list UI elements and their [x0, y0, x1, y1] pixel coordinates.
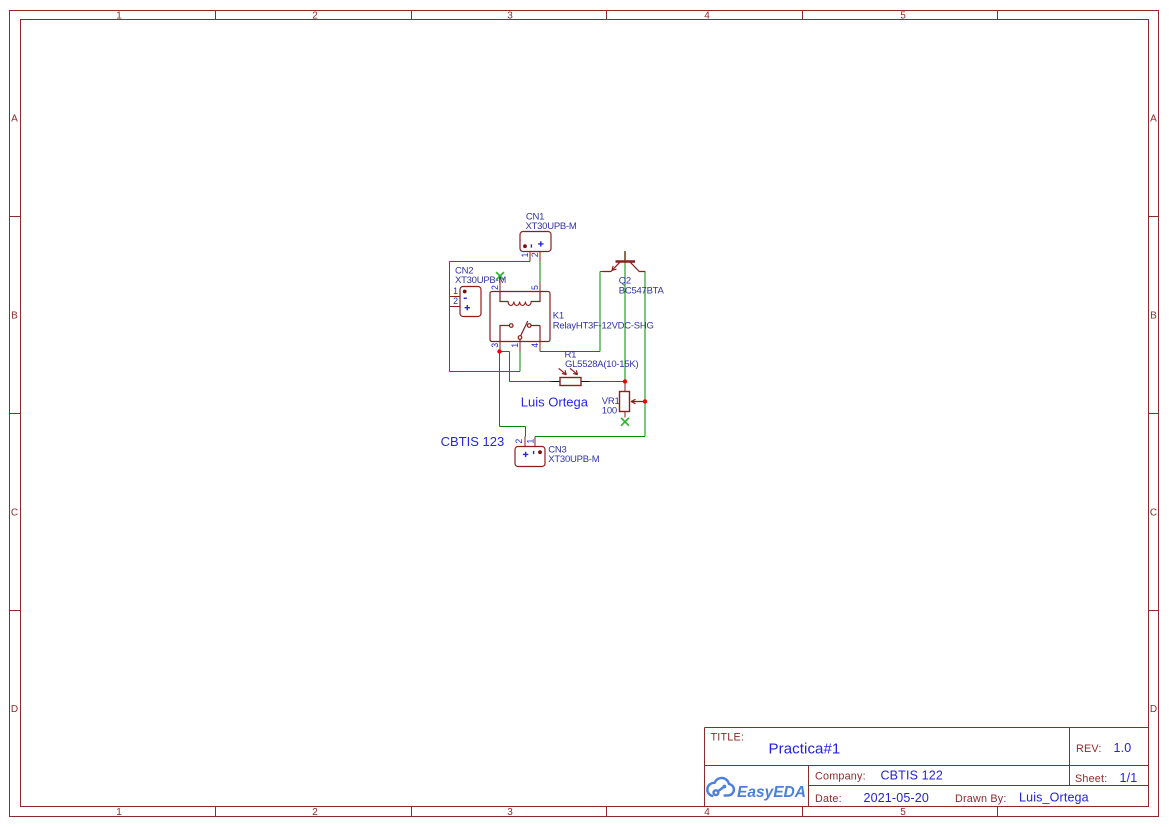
svg-text:Company:: Company:: [815, 771, 866, 783]
svg-text:1: 1: [510, 343, 520, 348]
svg-text:5: 5: [900, 10, 906, 21]
svg-text:Date:: Date:: [815, 793, 842, 805]
svg-text:XT30UPB-M: XT30UPB-M: [526, 221, 577, 232]
svg-text:100: 100: [602, 406, 617, 417]
svg-text:XT30UPB-M: XT30UPB-M: [548, 454, 599, 465]
svg-text:REV:: REV:: [1076, 743, 1102, 755]
svg-text:B: B: [1150, 311, 1157, 322]
svg-text:Drawn By:: Drawn By:: [955, 793, 1007, 805]
svg-text:1.0: 1.0: [1114, 741, 1132, 755]
svg-text:2: 2: [312, 807, 318, 818]
svg-text:4: 4: [704, 10, 710, 21]
svg-text:1/1: 1/1: [1120, 771, 1138, 785]
svg-text:TITLE:: TITLE:: [711, 732, 745, 744]
svg-text:2021-05-20: 2021-05-20: [864, 791, 929, 805]
svg-text:BC547BTA: BC547BTA: [619, 285, 665, 296]
svg-text:4: 4: [530, 343, 540, 348]
svg-text:2: 2: [312, 10, 318, 21]
svg-text:2: 2: [530, 252, 540, 257]
svg-text:C: C: [1150, 508, 1157, 519]
svg-text:GL5528A(10-15K): GL5528A(10-15K): [565, 359, 638, 370]
svg-text:D: D: [11, 704, 18, 715]
svg-text:RelayHT3F-12VDC-SHG: RelayHT3F-12VDC-SHG: [553, 321, 654, 332]
svg-text:1: 1: [520, 252, 530, 257]
svg-text:5: 5: [900, 807, 906, 818]
svg-text:EasyEDA: EasyEDA: [737, 784, 806, 801]
svg-text:CBTIS 123: CBTIS 123: [441, 434, 505, 449]
svg-text:A: A: [1150, 114, 1157, 125]
svg-text:A: A: [11, 114, 18, 125]
svg-text:2: 2: [490, 285, 500, 290]
svg-text:3: 3: [507, 807, 513, 818]
svg-text:Luis_Ortega: Luis_Ortega: [1019, 791, 1089, 805]
svg-text:Sheet:: Sheet:: [1075, 773, 1107, 785]
svg-text:C: C: [11, 508, 18, 519]
svg-text:4: 4: [704, 807, 710, 818]
svg-text:1: 1: [116, 10, 122, 21]
svg-text:Luis Ortega: Luis Ortega: [521, 395, 589, 410]
svg-text:5: 5: [530, 285, 540, 290]
svg-text:1: 1: [453, 286, 458, 296]
svg-text:2: 2: [453, 296, 458, 306]
svg-text:3: 3: [507, 10, 513, 21]
svg-text:B: B: [11, 311, 18, 322]
svg-text:2: 2: [514, 439, 524, 444]
svg-text:CBTIS 122: CBTIS 122: [881, 769, 944, 783]
svg-text:1: 1: [116, 807, 122, 818]
svg-text:D: D: [1150, 704, 1157, 715]
svg-text:1: 1: [526, 439, 536, 444]
svg-text:3: 3: [490, 343, 500, 348]
svg-text:XT30UPB-M: XT30UPB-M: [455, 275, 506, 286]
svg-text:Practica#1: Practica#1: [769, 741, 841, 758]
